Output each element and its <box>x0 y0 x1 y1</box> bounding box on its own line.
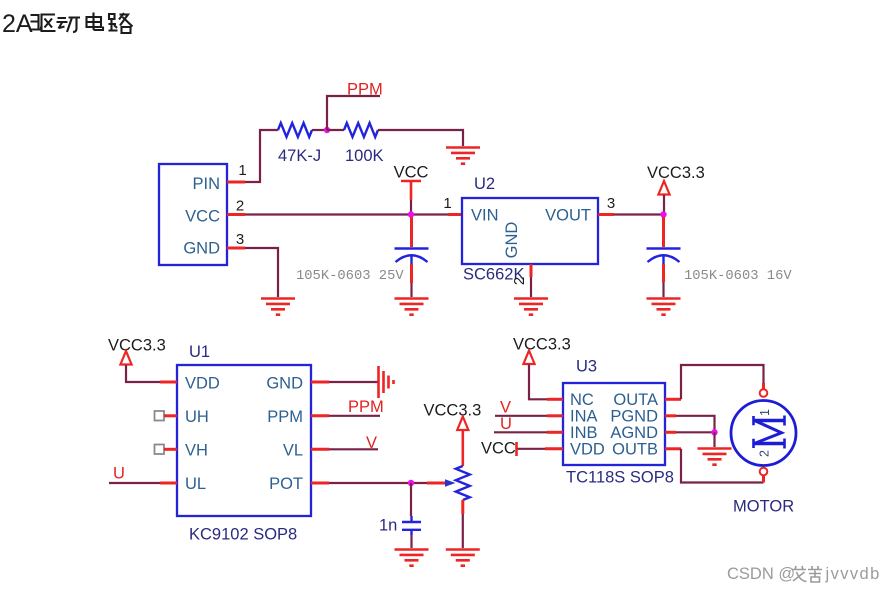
net label PPM at U1 <box>311 398 384 416</box>
net label VCC at U3 VDD <box>481 440 563 458</box>
svg-text:2: 2 <box>511 277 528 285</box>
title 2A drive circuit <box>2 10 133 38</box>
net label U at U3 INB <box>494 415 563 433</box>
ground at U3 AGND <box>698 449 732 465</box>
IC U1 KC9102 <box>177 343 311 544</box>
ground at C1 <box>395 299 429 315</box>
svg-text:PIN: PIN <box>192 175 220 193</box>
svg-text:VCC: VCC <box>185 208 220 226</box>
ground at C3 <box>395 550 429 566</box>
wire U3 PGND <box>665 416 715 433</box>
wire pin3 to ground <box>245 248 278 297</box>
net label PPM wire <box>327 81 383 131</box>
connector PIN header <box>159 164 227 265</box>
power VCC3.3 at potentiometer <box>424 402 482 467</box>
svg-text:OUTB: OUTB <box>612 440 658 458</box>
wire U3 AGND <box>665 431 715 434</box>
svg-text:VCC3.3: VCC3.3 <box>513 336 571 354</box>
svg-text:VOUT: VOUT <box>545 207 591 225</box>
wire U1 POT <box>311 482 445 485</box>
svg-text:VH: VH <box>185 442 208 460</box>
svg-text:V: V <box>500 399 511 417</box>
power VCC symbol <box>394 164 429 214</box>
svg-text:1: 1 <box>758 409 772 416</box>
label MOTOR <box>733 498 794 516</box>
svg-text:VL: VL <box>283 442 303 460</box>
svg-text:105K-0603 25V: 105K-0603 25V <box>296 269 404 284</box>
svg-text:PPM: PPM <box>347 81 383 99</box>
motor terminal ring 1 <box>760 389 768 397</box>
node VCC junction <box>408 211 414 217</box>
motor terminal ring 2 <box>760 468 768 476</box>
motor pin number 1 <box>758 409 772 416</box>
watermark CSDN <box>727 565 881 583</box>
node VOUT junction <box>660 211 666 217</box>
svg-text:NC: NC <box>570 391 594 409</box>
ground at connector <box>261 299 295 315</box>
svg-text:KC9102 SOP8: KC9102 SOP8 <box>189 526 297 544</box>
svg-text:PPM: PPM <box>267 408 303 426</box>
ground at U2 <box>514 299 548 315</box>
svg-text:U: U <box>113 465 125 483</box>
svg-text:VCC3.3: VCC3.3 <box>424 402 482 420</box>
svg-text:U3: U3 <box>576 358 597 376</box>
svg-text:105K-0603 16V: 105K-0603 16V <box>684 269 792 284</box>
wire U3 OUTA to motor pin 1 <box>665 365 764 399</box>
svg-text:PGND: PGND <box>610 407 658 425</box>
svg-text:2A: 2A <box>2 10 33 38</box>
svg-text:U: U <box>500 415 512 433</box>
svg-text:VCC: VCC <box>481 440 516 458</box>
svg-text:VCC3.3: VCC3.3 <box>108 337 166 355</box>
svg-text:GND: GND <box>183 240 220 258</box>
wire pin1 to R1 <box>245 130 278 182</box>
wire VOUT to VCC3.3 <box>614 213 664 215</box>
no-connect square VH <box>155 445 178 455</box>
pin stub U2 GND pin 2 <box>530 264 533 297</box>
svg-text:VDD: VDD <box>185 375 220 393</box>
svg-text:OUTA: OUTA <box>613 391 658 409</box>
svg-text:POT: POT <box>269 475 303 493</box>
net label V at U3 INA <box>495 399 563 417</box>
node AGND junction <box>711 429 717 447</box>
motor M circle <box>731 401 796 466</box>
svg-text:jvvvdb: jvvvdb <box>825 565 881 583</box>
wire VCC rail <box>245 213 448 215</box>
svg-text:UL: UL <box>185 475 206 493</box>
pin stub U2 VIN <box>443 195 462 215</box>
node PPM junction <box>324 127 330 133</box>
svg-text:GND: GND <box>266 375 303 393</box>
pin 3 stub <box>227 231 245 248</box>
svg-text:VDD: VDD <box>570 440 605 458</box>
svg-text:PPM: PPM <box>348 398 384 416</box>
earth ground at U1 GND <box>379 366 394 398</box>
svg-text:VCC3.3: VCC3.3 <box>647 164 705 182</box>
capacitor C3 1n <box>379 516 421 548</box>
svg-text:UH: UH <box>185 408 209 426</box>
svg-text:VIN: VIN <box>471 207 499 225</box>
svg-text:V: V <box>366 434 377 452</box>
node POT junction <box>408 480 414 486</box>
wire U3 OUTB to motor pin 2 <box>665 449 764 483</box>
pin stub U1 GND <box>311 381 378 384</box>
pin 2 stub <box>227 198 245 215</box>
svg-text:CSDN @: CSDN @ <box>727 565 795 583</box>
no-connect square UH <box>155 411 178 421</box>
power VCC3.3 right <box>647 164 705 213</box>
pin stub U1 VDD <box>160 381 177 384</box>
capacitor C2 105K-0603 16V <box>647 217 793 297</box>
IC U3 TC118S <box>563 358 674 487</box>
potentiometer RV1 <box>456 466 470 548</box>
ground at R2 <box>446 148 480 164</box>
ground at potentiometer <box>446 550 480 566</box>
regulator U2 SC662K <box>462 175 598 285</box>
svg-text:2: 2 <box>758 450 772 457</box>
svg-text:AGND: AGND <box>610 424 658 442</box>
wire R2 to ground <box>378 130 463 146</box>
resistor R1 47K-J <box>278 123 321 165</box>
svg-text:47K-J: 47K-J <box>278 147 321 165</box>
svg-text:U1: U1 <box>189 343 210 361</box>
svg-text:U2: U2 <box>474 175 495 193</box>
svg-text:1n: 1n <box>379 517 397 535</box>
svg-text:100K: 100K <box>345 147 384 165</box>
pin 1 stub <box>227 162 247 182</box>
net label V at U1 VL <box>311 434 378 452</box>
motor M glyph <box>754 416 785 449</box>
svg-text:3: 3 <box>607 195 615 212</box>
pin stub U2 VOUT pin 3 <box>598 195 615 215</box>
svg-text:VCC: VCC <box>394 164 429 182</box>
wire R1 to junction <box>312 129 327 131</box>
svg-text:INA: INA <box>570 407 598 425</box>
net label U wire <box>109 465 177 484</box>
motor pin number 2 <box>758 450 772 457</box>
svg-text:1: 1 <box>443 195 451 212</box>
pin stub U3 NC <box>547 398 563 401</box>
svg-text:3: 3 <box>236 231 244 248</box>
ground at C2 <box>647 299 681 315</box>
svg-text:2: 2 <box>236 198 244 215</box>
resistor R2 100K <box>327 123 384 165</box>
power VCC3.3 at U1 <box>108 337 166 383</box>
svg-text:GND: GND <box>503 222 521 259</box>
svg-text:MOTOR: MOTOR <box>733 498 794 516</box>
capacitor C1 105K-0603 25V <box>296 217 429 297</box>
power VCC3.3 at U3 <box>513 336 571 400</box>
svg-text:INB: INB <box>570 424 598 442</box>
svg-text:1: 1 <box>238 162 246 179</box>
svg-text:TC118S SOP8: TC118S SOP8 <box>566 469 674 487</box>
wiper arrow into potentiometer <box>445 479 456 487</box>
wire junction down to C3 <box>410 483 412 516</box>
